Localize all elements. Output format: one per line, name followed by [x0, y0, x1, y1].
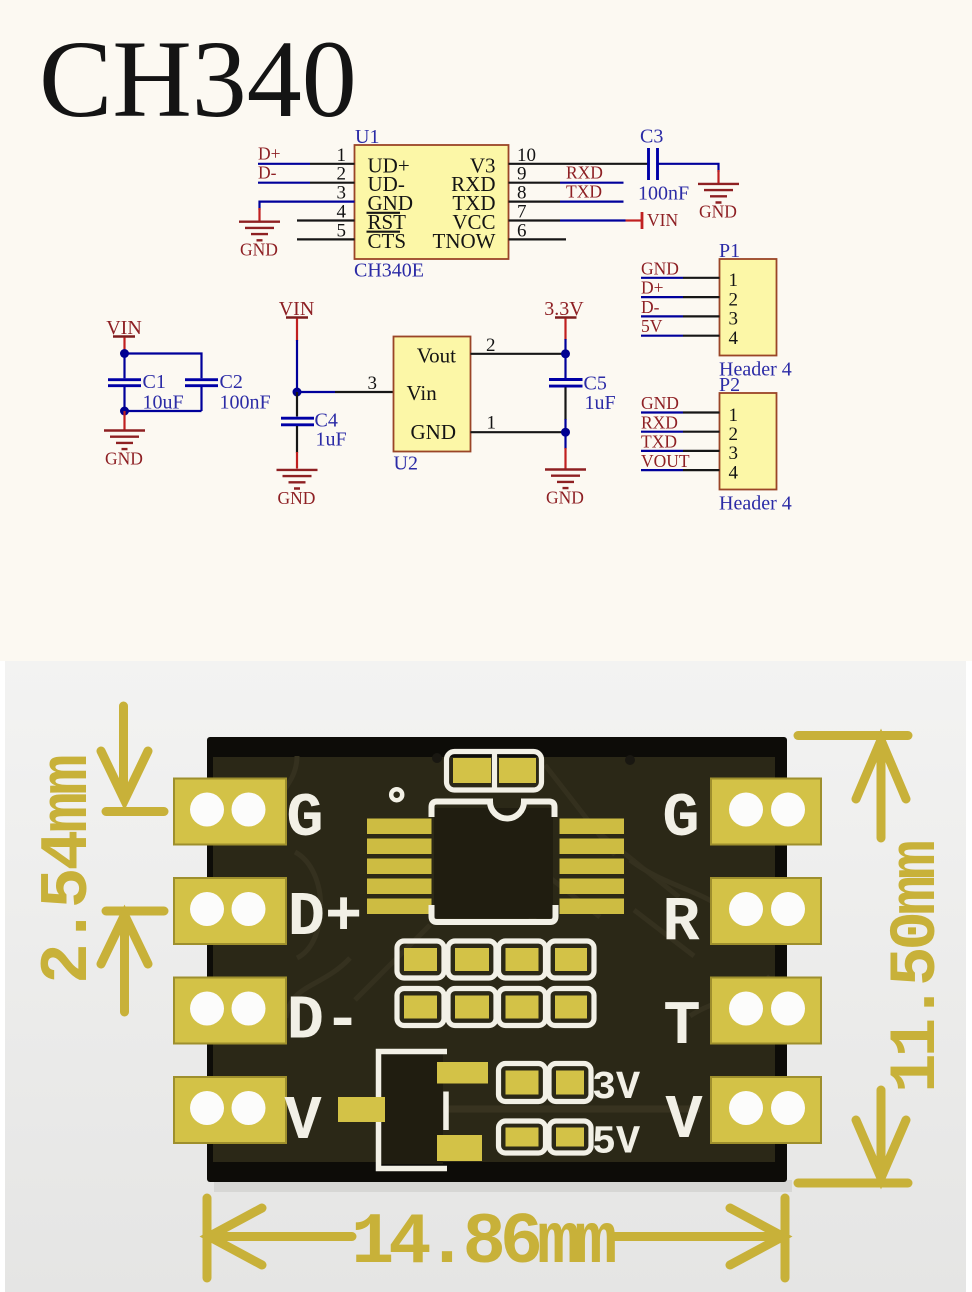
svg-text:VOUT: VOUT — [641, 451, 690, 471]
IC silkscreen outline bottom — [432, 905, 556, 922]
ground symbol below C1 — [104, 431, 145, 450]
bottom-left footprint bracket — [379, 1052, 448, 1169]
IC footprint left pads — [367, 819, 432, 915]
3V pad rings — [499, 1064, 546, 1102]
wire VIN down to node — [123, 338, 125, 354]
dimension left arrow bottom — [209, 1208, 352, 1265]
wire GND to P1 pin 1 — [641, 277, 683, 279]
svg-text:V: V — [284, 1086, 322, 1157]
ground symbol below C5 — [545, 470, 586, 489]
svg-text:2: 2 — [729, 424, 739, 445]
wire TXD to P2 pin 3 — [641, 450, 683, 452]
pcb gray panel — [5, 661, 966, 1292]
pin1 marker dot — [391, 789, 402, 800]
svg-text:R: R — [662, 887, 700, 958]
svg-text:GND: GND — [699, 202, 737, 222]
IC footprint right pads — [560, 819, 625, 915]
ground symbol right of C3 — [698, 184, 739, 203]
power port bar VIN — [641, 212, 644, 229]
wire D- to U1 pin 2 — [258, 182, 310, 184]
top footprint ring — [447, 752, 542, 791]
svg-text:3V: 3V — [592, 1066, 640, 1111]
wire U1 pin 4 stub — [297, 219, 355, 221]
regulator U2 body — [394, 337, 471, 452]
capacitor C5 — [564, 354, 566, 378]
wire U1 pin 5 stub — [297, 238, 355, 240]
wire C5 to ground — [564, 432, 566, 449]
right pad G — [711, 779, 821, 845]
header P1 body — [720, 259, 777, 356]
dimension up arrow right — [856, 740, 906, 838]
svg-text:GND: GND — [411, 420, 457, 444]
ground symbol left of U1 — [239, 222, 280, 241]
dimension top bar right — [798, 731, 908, 740]
copper trace bottom — [385, 1106, 700, 1113]
left pad G — [174, 779, 286, 845]
power port bar VIN center — [286, 316, 308, 319]
svg-text:6: 6 — [517, 220, 527, 241]
wire D+ to P1 pin 2 — [641, 296, 683, 298]
wire D+ to U1 pin 1 — [258, 163, 310, 165]
copper traces center — [355, 765, 679, 1000]
wire 5V to P1 pin 4 — [641, 335, 683, 337]
svg-text:TNOW: TNOW — [433, 229, 496, 253]
3V pads — [506, 1071, 585, 1095]
wire C2 bottom to node — [125, 410, 202, 412]
bottom-left footprint dark area — [381, 1054, 443, 1164]
svg-text:TXD: TXD — [566, 181, 602, 201]
svg-text:Vout: Vout — [417, 344, 456, 368]
svg-text:2: 2 — [729, 289, 739, 310]
svg-text:D-: D- — [287, 986, 361, 1057]
schematic background — [0, 0, 972, 661]
PCB board shadow — [214, 1180, 792, 1192]
svg-text:5: 5 — [337, 220, 347, 241]
svg-text:D+: D+ — [258, 144, 281, 164]
svg-text:1uF: 1uF — [316, 429, 347, 451]
svg-text:3: 3 — [729, 309, 739, 330]
bottom-left footprint pad C — [338, 1097, 385, 1122]
bottom-left footprint pad A — [437, 1062, 488, 1084]
dimension terminator bar bottom left — [203, 1198, 212, 1278]
svg-text:1: 1 — [487, 413, 497, 434]
svg-text:Header 4: Header 4 — [719, 493, 792, 515]
svg-text:D-: D- — [641, 297, 660, 317]
dimension right arrow bottom — [613, 1208, 783, 1265]
node junction C1 top — [120, 349, 129, 358]
dimension down arrow right — [856, 1090, 906, 1178]
copper trace arcs left — [267, 756, 350, 1018]
left pad D- — [174, 978, 286, 1044]
mid grid pads row B — [404, 996, 587, 1019]
copper trace right — [630, 860, 770, 1016]
PCB substrate — [213, 757, 775, 1162]
svg-text:CH340E: CH340E — [354, 260, 424, 282]
node junction C5 top — [561, 349, 570, 358]
5V pads — [506, 1128, 585, 1147]
svg-text:3: 3 — [729, 443, 739, 464]
right pad holes — [729, 793, 805, 1126]
svg-text:3: 3 — [368, 373, 378, 394]
svg-text:1: 1 — [729, 405, 739, 426]
PCB board outer edge — [207, 737, 787, 1182]
svg-text:1: 1 — [729, 270, 739, 291]
svg-text:4: 4 — [729, 462, 739, 483]
wire C3 to ground — [658, 164, 719, 172]
capacitor C2 — [185, 380, 218, 386]
svg-text:9: 9 — [517, 164, 527, 185]
bottom-left footprint pad B — [437, 1135, 482, 1161]
node junction at C4 — [293, 388, 302, 397]
svg-text:G: G — [286, 783, 323, 854]
svg-text:D+: D+ — [641, 278, 664, 298]
dimension up arrow left — [101, 911, 164, 1012]
svg-text:GND: GND — [240, 240, 278, 260]
bottom-left footprint divider — [443, 1092, 449, 1131]
wire VOUT to P2 pin 4 — [641, 469, 683, 471]
svg-text:C1: C1 — [143, 371, 166, 393]
capacitor C1 — [123, 354, 125, 379]
svg-text:100nF: 100nF — [220, 392, 271, 414]
svg-text:TXD: TXD — [641, 432, 677, 452]
mid grid ring row B — [397, 989, 444, 1026]
dimension terminator bar bottom right — [781, 1198, 790, 1278]
top footprint divider — [492, 752, 497, 791]
svg-text:GND: GND — [641, 393, 679, 413]
svg-text:RXD: RXD — [641, 412, 678, 432]
top footprint pads — [453, 758, 491, 783]
ground symbol below C4 — [277, 470, 318, 489]
wire 3.3V down to node — [564, 319, 566, 341]
wire U1 pin 3 to ground — [260, 202, 355, 210]
left pad D+ — [174, 878, 286, 944]
svg-text:2: 2 — [337, 164, 347, 185]
mid grid pads row A — [404, 948, 587, 971]
node junction C1 bottom — [120, 407, 129, 416]
via dots — [432, 753, 442, 763]
IC body shade — [434, 808, 553, 918]
wire U1 pin 8 TXD — [509, 201, 561, 203]
svg-text:CH340: CH340 — [39, 18, 357, 140]
wire GND to P2 pin 1 — [641, 411, 683, 413]
wire U2 GND pin to node — [471, 431, 566, 433]
svg-text:D+: D+ — [288, 882, 362, 953]
right pad R — [711, 878, 821, 944]
wire node to C2 top — [125, 354, 202, 379]
wire C4 to ground — [296, 452, 298, 469]
svg-text:5V: 5V — [592, 1121, 640, 1166]
svg-text:11.50mm: 11.50mm — [879, 841, 954, 1093]
wire VIN down to node — [296, 319, 298, 342]
left pad V — [174, 1077, 286, 1143]
svg-text:GND: GND — [105, 449, 143, 469]
wire U1 pin 10 to C3 — [509, 163, 649, 165]
svg-text:G: G — [662, 783, 699, 854]
wire U1 pin 7 VCC to VIN — [509, 219, 561, 221]
wire U2 Vout to node — [471, 353, 566, 355]
power port bar VIN left — [113, 335, 135, 338]
svg-text:10: 10 — [517, 145, 536, 166]
svg-text:1: 1 — [337, 145, 347, 166]
svg-text:T: T — [663, 991, 700, 1062]
wire U1 pin 9 RXD — [509, 182, 561, 184]
svg-text:7: 7 — [517, 202, 527, 223]
svg-text:C2: C2 — [220, 371, 243, 393]
svg-text:U2: U2 — [394, 453, 418, 475]
svg-text:3: 3 — [337, 183, 347, 204]
left pad holes — [190, 793, 266, 1126]
5V pad rings — [499, 1121, 546, 1153]
svg-text:D-: D- — [258, 163, 277, 183]
right pad T — [711, 978, 821, 1044]
IC silkscreen outline top with notch — [432, 802, 555, 819]
svg-text:GND: GND — [278, 488, 316, 508]
svg-text:V: V — [665, 1085, 703, 1156]
node junction C5 bottom — [561, 428, 570, 437]
dimension bottom bar right — [798, 1179, 908, 1188]
wire RXD to P2 pin 2 — [641, 431, 683, 433]
wire U1 pin 6 stub — [509, 238, 567, 240]
svg-text:5V: 5V — [641, 316, 663, 336]
wire node to U2 Vin pin 3 — [297, 391, 335, 393]
svg-text:Vin: Vin — [407, 381, 438, 405]
capacitor C4 — [296, 392, 298, 417]
capacitor C3 — [649, 148, 658, 180]
header P2 body — [720, 393, 777, 490]
wire D- to P1 pin 3 — [641, 315, 683, 317]
mid grid ring row A — [397, 941, 444, 978]
svg-text:GND: GND — [641, 259, 679, 279]
svg-text:2.54mm: 2.54mm — [30, 756, 107, 984]
svg-text:1uF: 1uF — [585, 392, 616, 414]
svg-text:GND: GND — [546, 488, 584, 508]
svg-text:RXD: RXD — [566, 163, 603, 183]
IC U1 body CH340E — [355, 145, 509, 259]
power port bar 3.3V — [555, 316, 577, 319]
dimension down arrow left — [101, 706, 164, 812]
right pad V — [711, 1077, 821, 1143]
svg-text:4: 4 — [337, 202, 347, 223]
wire node to ground — [123, 411, 125, 430]
svg-text:C3: C3 — [640, 126, 663, 148]
svg-text:14.86mm: 14.86mm — [351, 1202, 615, 1284]
svg-text:VIN: VIN — [647, 210, 678, 230]
svg-text:8: 8 — [517, 183, 527, 204]
svg-text:100nF: 100nF — [638, 183, 689, 205]
svg-text:4: 4 — [729, 328, 739, 349]
